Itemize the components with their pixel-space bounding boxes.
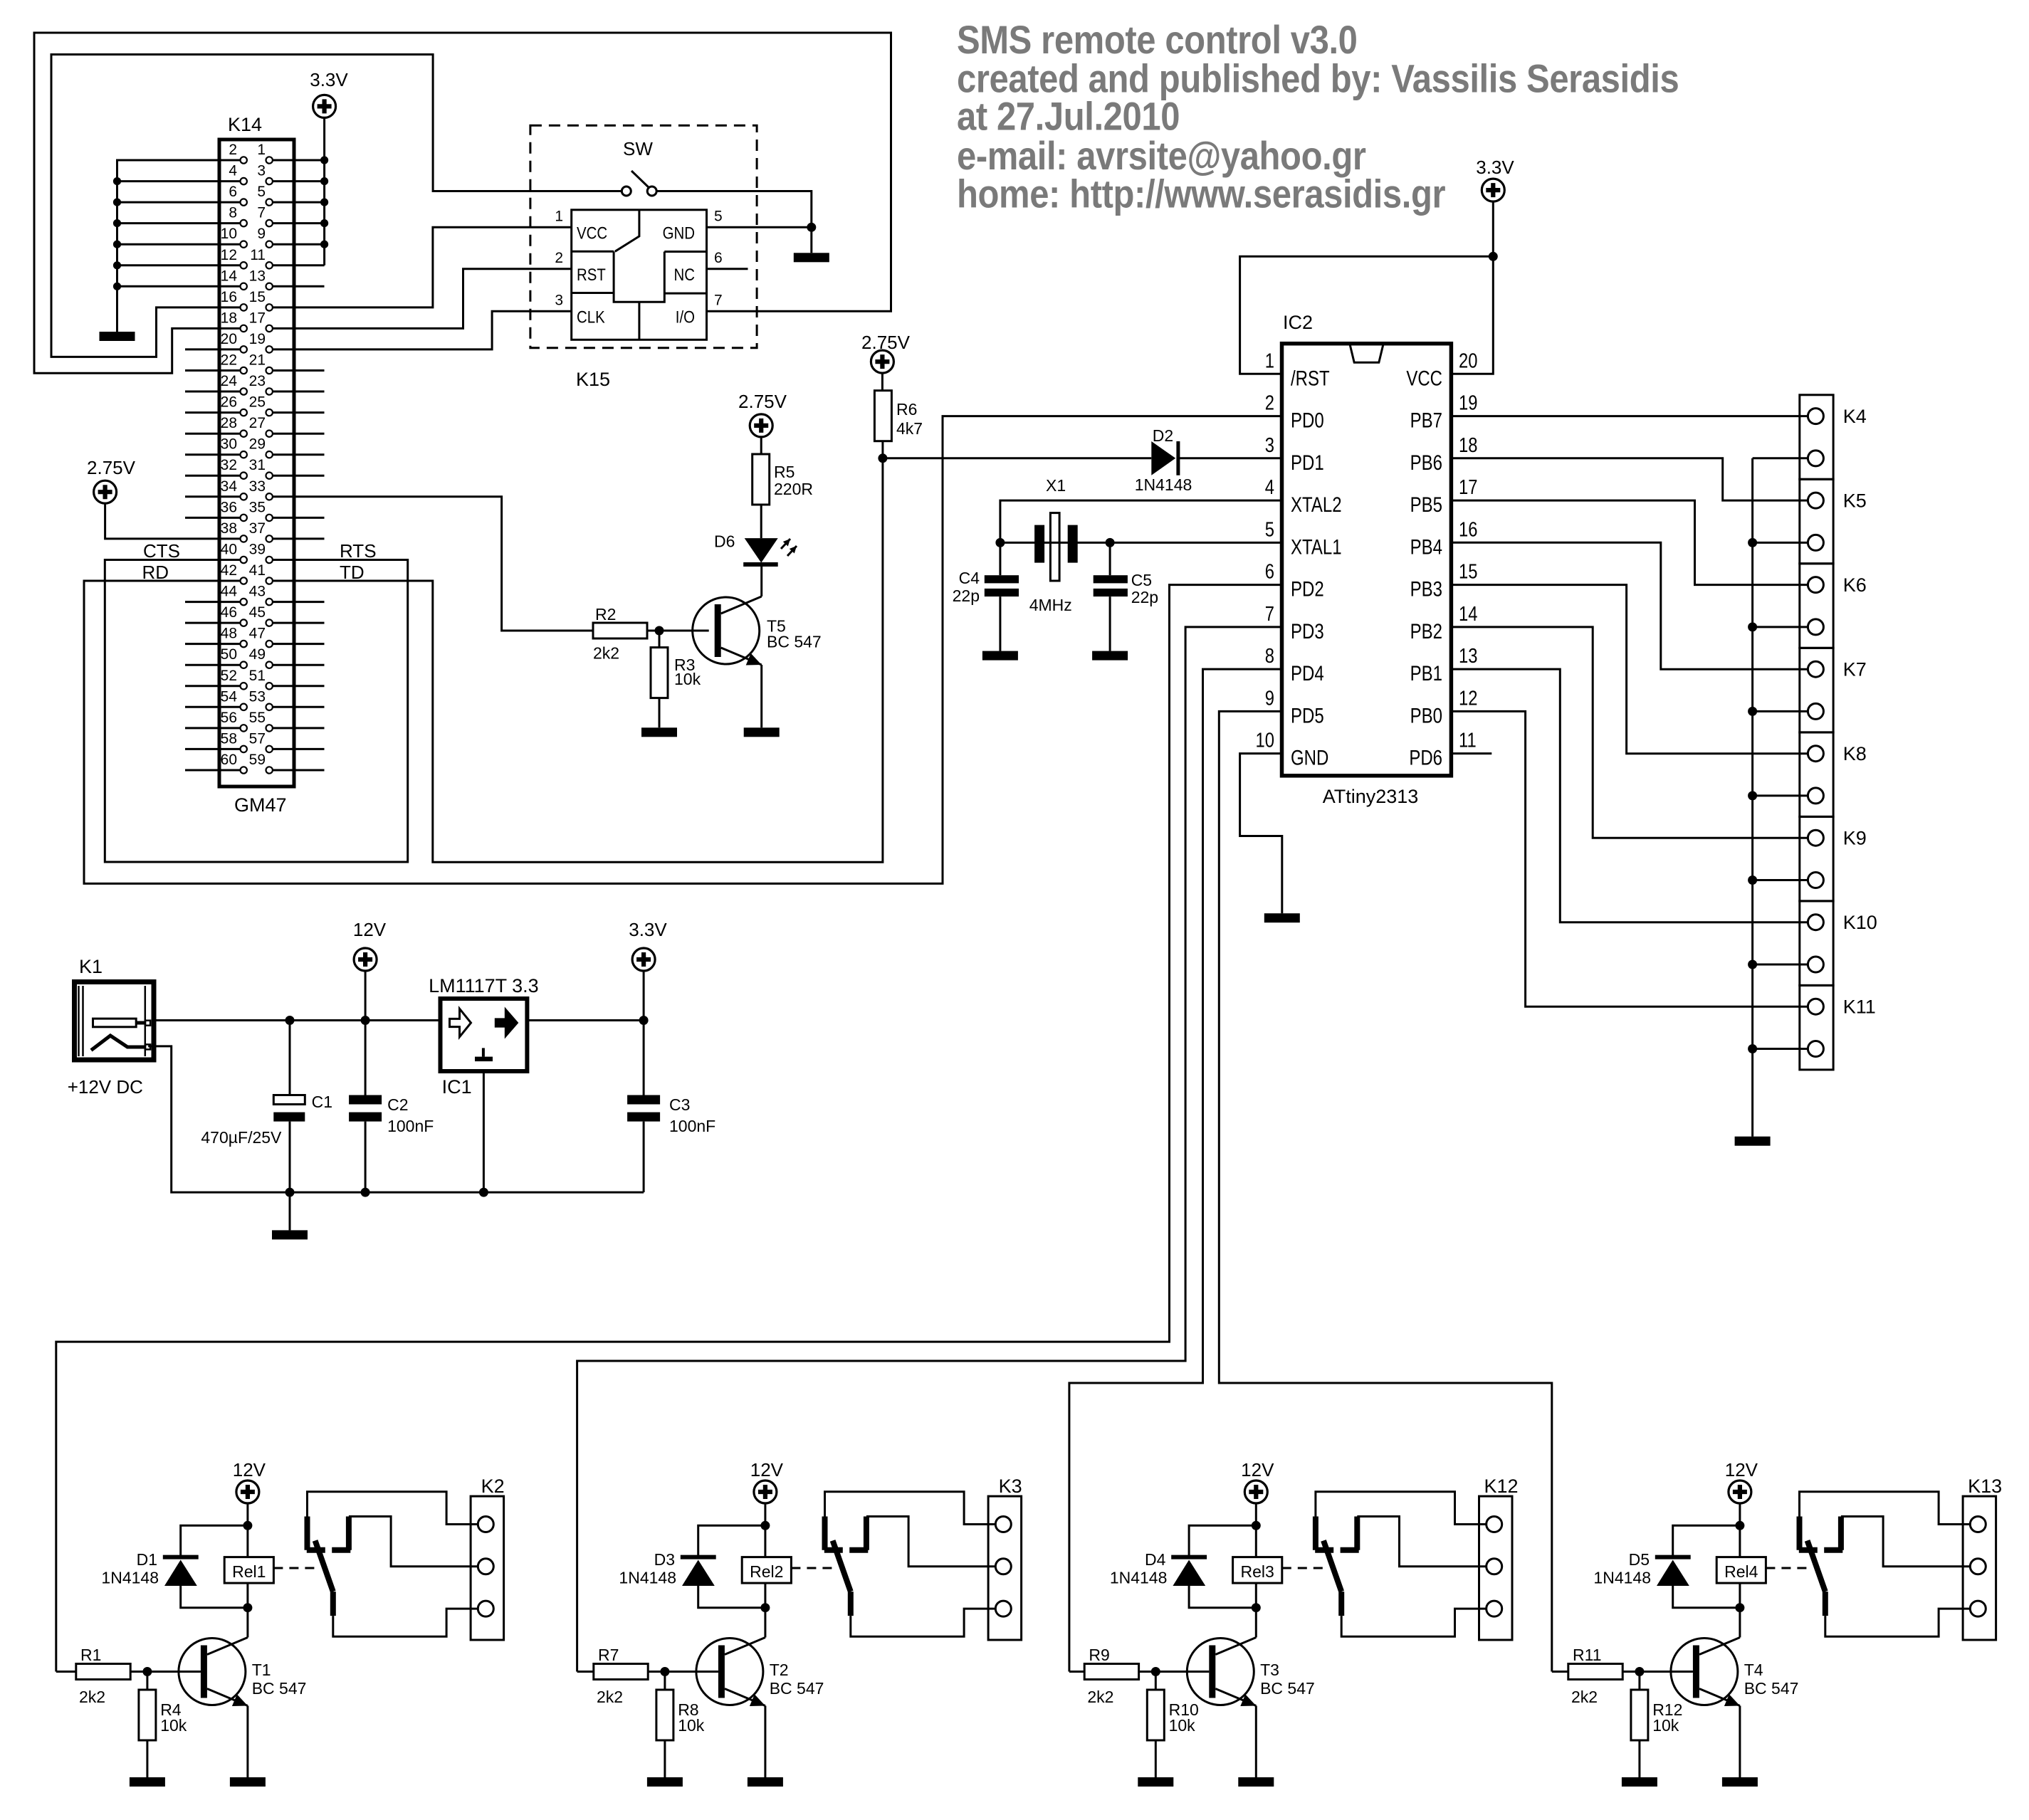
K14 pin 59 (right) <box>266 767 273 773</box>
K14 pin 51 (right) <box>266 683 273 689</box>
junction <box>660 1667 669 1676</box>
wire ground bus of output connectors <box>1753 458 1808 1137</box>
svg-text:X1: X1 <box>1046 476 1066 495</box>
ground (K14 left bus) <box>100 332 135 341</box>
svg-text:12V: 12V <box>233 1459 266 1480</box>
junction <box>639 1016 649 1025</box>
relay contact (SPDT) of Rel3 <box>1315 1517 1333 1550</box>
svg-text:59: 59 <box>249 752 266 768</box>
IC1 output arrow <box>496 1009 518 1037</box>
wire D2 cathode to IC2 PD1 <box>1180 457 1282 459</box>
connector K14 (GM47 module) body <box>219 140 294 787</box>
K13 pin 3 <box>1970 1601 1986 1616</box>
svg-text:19: 19 <box>1459 391 1477 414</box>
K14 pin 56 (left) <box>241 725 247 731</box>
K14 pin 24 (left) <box>241 388 247 394</box>
junction <box>113 283 121 290</box>
ground (T1) <box>230 1777 266 1787</box>
connector K12 body <box>1479 1496 1513 1640</box>
wire base input to R1 <box>56 1671 76 1673</box>
svg-text:53: 53 <box>249 688 266 705</box>
svg-text:K1: K1 <box>79 956 103 977</box>
svg-text:K12: K12 <box>1484 1476 1518 1497</box>
svg-text:R9: R9 <box>1089 1646 1109 1664</box>
junction <box>113 241 121 248</box>
K14 pin 8 (left) <box>241 220 247 226</box>
resistor R6 <box>874 391 891 441</box>
junction <box>113 177 121 185</box>
junction <box>655 626 664 636</box>
wire 12V to coil junction <box>764 1503 766 1557</box>
supply 3.3V (rail) <box>632 948 655 971</box>
svg-text:10k: 10k <box>1169 1716 1196 1735</box>
svg-text:22: 22 <box>221 352 237 369</box>
crystal X1 4MHz <box>1034 525 1044 563</box>
svg-text:GM47: GM47 <box>234 794 287 816</box>
junction <box>995 538 1005 547</box>
svg-text:PB2: PB2 <box>1410 619 1442 643</box>
connector K1 power jack <box>75 982 154 1061</box>
wire contact NC to K2 pin1 <box>308 1492 478 1525</box>
svg-text:220R: 220R <box>774 480 813 498</box>
wire K14 pins 1-11 3.3V bus <box>273 117 325 265</box>
svg-text:40: 40 <box>221 542 237 558</box>
K14 pin 58 (left) <box>241 746 247 752</box>
wire contact common to K2 pin3 <box>333 1609 478 1636</box>
diode D5 1N4148 flyback <box>1673 1525 1740 1607</box>
svg-text:12V: 12V <box>353 919 387 940</box>
resistor R12 10k <box>1638 1672 1640 1778</box>
svg-text:K14: K14 <box>228 114 262 135</box>
K6 pin 1 <box>1808 577 1823 593</box>
svg-text:D1: D1 <box>137 1550 157 1569</box>
svg-text:16: 16 <box>1459 517 1477 541</box>
relay coil Rel4 <box>1716 1557 1766 1584</box>
wire 2.75V to R6 <box>881 373 884 391</box>
wire PB4 to K7 <box>1451 542 1808 669</box>
svg-text:K2: K2 <box>481 1476 505 1497</box>
svg-text:44: 44 <box>221 584 238 600</box>
svg-text:22p: 22p <box>953 586 980 605</box>
svg-text:20: 20 <box>221 331 237 347</box>
supply 12V (Rel1) <box>236 1480 259 1503</box>
svg-text:C5: C5 <box>1131 571 1152 589</box>
junction <box>320 177 328 185</box>
svg-text:33: 33 <box>249 478 266 495</box>
svg-text:5: 5 <box>257 184 266 200</box>
K14 pin 40 (left) <box>241 557 247 563</box>
K14 pin 15 (right) <box>266 304 273 310</box>
svg-text:15: 15 <box>249 289 266 305</box>
svg-text:1: 1 <box>1265 349 1274 372</box>
wire net TD (pin41 to R6/D2 junction, IC2 PD1) <box>273 458 883 863</box>
svg-text:23: 23 <box>249 373 266 389</box>
diode D1 1N4148 flyback <box>181 1525 248 1607</box>
capacitor C3 100nF <box>643 1021 645 1193</box>
svg-text:2k2: 2k2 <box>593 644 619 663</box>
junction <box>878 453 887 463</box>
wire T4 emitter to ground <box>1739 1706 1741 1778</box>
K14 pin 60 (left) <box>241 767 247 773</box>
wire C4 top <box>999 542 1001 575</box>
wire net PD2 (IC2 pin6 to relay 1) <box>56 585 1282 1672</box>
supply 12V (Rel2) <box>754 1480 777 1503</box>
svg-text:10k: 10k <box>160 1716 187 1735</box>
K3 pin 3 <box>995 1601 1011 1616</box>
svg-text:2: 2 <box>229 142 237 158</box>
K12 pin 2 <box>1487 1559 1502 1574</box>
K14 pin 45 (right) <box>266 619 273 626</box>
wire CTS-RTS loop (pin40 to pin39) <box>105 560 407 863</box>
transistor T3 BC 547 <box>1187 1638 1254 1705</box>
svg-text:XTAL2: XTAL2 <box>1291 492 1342 516</box>
svg-text:34: 34 <box>221 478 238 495</box>
K13 pin 2 <box>1970 1559 1986 1574</box>
K14 pin 35 (right) <box>266 515 273 521</box>
wire contact common to K12 pin3 <box>1341 1609 1487 1636</box>
connector K3 body <box>988 1496 1022 1640</box>
IC IC2 ATtiny2313 body <box>1282 344 1452 776</box>
svg-text:Rel2: Rel2 <box>750 1562 783 1581</box>
junction <box>807 223 816 232</box>
connector K7 body <box>1800 648 1833 732</box>
K5 pin 1 <box>1808 493 1823 508</box>
K11 pin 1 <box>1808 999 1823 1014</box>
wire T5 emitter to ground <box>760 665 762 727</box>
junction <box>1735 1521 1744 1530</box>
junction <box>1735 1603 1744 1612</box>
svg-text:VCC: VCC <box>577 223 607 243</box>
wire K14 pin33 to R2 <box>273 497 593 631</box>
wire PB3 to K8 <box>1451 585 1808 754</box>
svg-text:11: 11 <box>250 247 266 263</box>
svg-text:C1: C1 <box>312 1093 332 1111</box>
svg-text:39: 39 <box>249 542 266 558</box>
wire IC2 VCC to 3.3V <box>1451 256 1493 374</box>
resistor R11 2k2 <box>1568 1664 1622 1680</box>
K14 pin 53 (right) <box>266 704 273 710</box>
capacitor C1 470uF/25V <box>289 1021 291 1193</box>
svg-text:1: 1 <box>257 142 266 158</box>
svg-text:2.75V: 2.75V <box>738 391 787 412</box>
junction <box>1151 1667 1160 1676</box>
ground (T5) <box>744 727 780 737</box>
wire ground rail drop <box>289 1192 291 1230</box>
capacitor C4 22p <box>985 575 1019 583</box>
K14 pin 11 (right) <box>266 262 273 268</box>
svg-text:35: 35 <box>249 499 266 515</box>
wire XTAL2 from IC2 to crystal <box>1000 500 1282 542</box>
svg-text:19: 19 <box>249 331 266 347</box>
wire K15 CLK to K14 pin19 <box>273 311 572 349</box>
resistor R8 10k <box>664 1672 666 1778</box>
svg-text:K3: K3 <box>999 1476 1022 1497</box>
svg-text:2k2: 2k2 <box>1087 1688 1113 1706</box>
svg-text:470µF/25V: 470µF/25V <box>201 1128 282 1147</box>
transistor T5 BC547 <box>693 597 760 664</box>
junction <box>1635 1667 1644 1676</box>
connector K2 body <box>471 1496 504 1640</box>
K9 pin 2 <box>1808 873 1823 888</box>
svg-text:PB1: PB1 <box>1410 661 1442 685</box>
wire K14 pins 2-14 ground bus <box>117 160 241 332</box>
K14 pin 23 (right) <box>266 388 273 394</box>
svg-text:51: 51 <box>249 668 266 684</box>
svg-text:NC: NC <box>674 265 695 284</box>
transistor T4 BC 547 <box>1671 1638 1738 1705</box>
K7 pin 2 <box>1808 703 1823 719</box>
wire 12V rail <box>152 1019 644 1021</box>
svg-text:18: 18 <box>221 310 237 326</box>
ground (IC2) <box>1264 913 1300 922</box>
K13 pin 1 <box>1970 1517 1986 1532</box>
K2 pin 2 <box>478 1559 493 1574</box>
ground (T3) <box>1238 1777 1274 1787</box>
svg-text:11: 11 <box>1459 728 1477 752</box>
svg-text:PD2: PD2 <box>1291 577 1324 601</box>
svg-text:I/O: I/O <box>676 307 695 327</box>
K14 pin 5 (right) <box>266 199 273 205</box>
wire K15 NC stub <box>707 268 748 270</box>
svg-text:BC 547: BC 547 <box>1744 1679 1799 1698</box>
svg-text:1N4148: 1N4148 <box>1110 1569 1168 1587</box>
svg-text:D5: D5 <box>1629 1550 1650 1569</box>
K14 pin 32 (left) <box>241 473 247 479</box>
resistor R4 10k <box>146 1672 148 1778</box>
svg-text:C2: C2 <box>387 1095 408 1114</box>
svg-text:3: 3 <box>257 163 266 179</box>
svg-text:14: 14 <box>1459 602 1477 626</box>
svg-text:D3: D3 <box>654 1550 675 1569</box>
K14 pin 6 (left) <box>241 199 247 205</box>
K14 pin 19 (right) <box>266 346 273 352</box>
K14 pin 46 (left) <box>241 619 247 626</box>
svg-text:RTS: RTS <box>340 540 377 562</box>
svg-text:CTS: CTS <box>143 540 180 562</box>
junction <box>113 219 121 227</box>
wire contact NO to K13 pin2 <box>1841 1517 1970 1567</box>
svg-text:/RST: /RST <box>1291 366 1330 390</box>
transistor T1 BC 547 <box>179 1638 246 1705</box>
svg-text:7: 7 <box>714 292 723 308</box>
svg-text:43: 43 <box>249 584 266 600</box>
relay coil Rel3 <box>1233 1557 1282 1584</box>
junction <box>760 1521 770 1530</box>
K14 pin 29 (right) <box>266 451 273 458</box>
wire 12V to coil junction <box>1255 1503 1257 1557</box>
junction <box>285 1016 295 1025</box>
title text block <box>957 18 1679 216</box>
svg-text:3.3V: 3.3V <box>1476 157 1514 178</box>
K14 pin 54 (left) <box>241 704 247 710</box>
svg-text:55: 55 <box>249 710 266 726</box>
svg-text:4: 4 <box>1265 475 1274 499</box>
wire T3 emitter to ground <box>1255 1706 1257 1778</box>
svg-text:58: 58 <box>221 730 237 747</box>
wire PD1 junction to D2 anode <box>883 457 1151 459</box>
K14 pin 50 (left) <box>241 662 247 668</box>
svg-text:C4: C4 <box>959 569 980 587</box>
svg-text:6: 6 <box>229 184 237 200</box>
svg-text:2.75V: 2.75V <box>861 332 911 353</box>
svg-text:XTAL1: XTAL1 <box>1291 535 1342 559</box>
K5 pin 2 <box>1808 535 1823 550</box>
junction <box>361 1016 370 1025</box>
resistor R10 10k <box>1155 1672 1157 1778</box>
K14 pin 52 (left) <box>241 683 247 689</box>
svg-text:BC 547: BC 547 <box>767 633 822 651</box>
supply 2.75V (R5) <box>750 414 772 437</box>
connector K11 body <box>1800 985 1833 1070</box>
wire SW to K15 GND junction and ground <box>656 191 812 253</box>
K11 pin 2 <box>1808 1041 1823 1057</box>
K2 pin 1 <box>478 1517 493 1532</box>
svg-text:49: 49 <box>249 646 266 663</box>
wire R5 to 2.75V <box>760 437 762 454</box>
ground (R10) <box>1138 1777 1173 1787</box>
wire IC2 PD6 stub <box>1451 752 1491 754</box>
ground (R4) <box>130 1777 165 1787</box>
svg-text:52: 52 <box>221 668 237 684</box>
K14 pin 36 (left) <box>241 515 247 521</box>
svg-text:6: 6 <box>714 250 723 266</box>
connector K8 body <box>1800 732 1833 817</box>
svg-text:46: 46 <box>221 604 237 621</box>
svg-text:7: 7 <box>1265 602 1274 626</box>
wire 2.75V to pin 38 <box>105 503 241 539</box>
junction <box>320 156 328 164</box>
svg-text:2k2: 2k2 <box>79 1688 105 1706</box>
wire contact NO to K12 pin2 <box>1357 1517 1486 1567</box>
svg-text:LM1117T 3.3: LM1117T 3.3 <box>429 975 539 996</box>
svg-text:6: 6 <box>1265 559 1274 583</box>
svg-text:100nF: 100nF <box>387 1117 434 1135</box>
svg-text:15: 15 <box>1459 559 1477 583</box>
K14 pin 14 (left) <box>241 283 247 290</box>
svg-text:12V: 12V <box>750 1459 784 1480</box>
svg-text:60: 60 <box>221 752 237 768</box>
K12 pin 3 <box>1487 1601 1502 1616</box>
K14 pin 44 (left) <box>241 599 247 605</box>
wire net SIM I/O (K14 pin18 outer loop to K15 pin7) <box>34 33 891 373</box>
svg-text:56: 56 <box>221 710 237 726</box>
svg-text:IC1: IC1 <box>442 1076 472 1098</box>
junction <box>142 1667 152 1676</box>
K14 pin 42 (left) <box>241 577 247 584</box>
K14 pin 55 (right) <box>266 725 273 731</box>
svg-text:14: 14 <box>221 268 238 284</box>
svg-text:PD4: PD4 <box>1291 661 1324 685</box>
svg-text:26: 26 <box>221 394 237 411</box>
junction <box>113 199 121 206</box>
svg-text:12V: 12V <box>1725 1459 1758 1480</box>
svg-text:PB6: PB6 <box>1410 450 1442 474</box>
svg-text:17: 17 <box>1459 475 1477 499</box>
K14 pin 31 (right) <box>266 473 273 479</box>
svg-text:R5: R5 <box>774 463 795 481</box>
svg-text:17: 17 <box>249 310 266 326</box>
wire 12V to coil junction <box>246 1503 248 1557</box>
svg-text:K6: K6 <box>1843 574 1867 596</box>
ground (R12) <box>1622 1777 1657 1787</box>
diode D3 1N4148 flyback <box>698 1525 765 1607</box>
K15 internal cell lines <box>572 210 707 340</box>
K14 pin 7 (right) <box>266 220 273 226</box>
svg-text:Rel1: Rel1 <box>232 1562 266 1581</box>
resistor R3 <box>659 631 661 727</box>
K14 pin 30 (left) <box>241 451 247 458</box>
K14 pin 25 (right) <box>266 409 273 416</box>
K9 pin 1 <box>1808 830 1823 846</box>
svg-text:9: 9 <box>1265 686 1274 710</box>
svg-text:8: 8 <box>1265 644 1274 668</box>
connector K4 body <box>1800 395 1833 480</box>
svg-text:1: 1 <box>555 208 563 224</box>
svg-text:22p: 22p <box>1131 588 1158 606</box>
svg-text:57: 57 <box>249 730 266 747</box>
resistor R1 2k2 <box>76 1664 130 1680</box>
svg-text:12: 12 <box>221 247 237 263</box>
wire PB1 to K10 <box>1451 669 1808 922</box>
K14 pin 12 (left) <box>241 262 247 268</box>
svg-text:BC 547: BC 547 <box>252 1679 307 1698</box>
svg-text:16: 16 <box>221 289 237 305</box>
resistor R2 <box>593 623 647 638</box>
svg-text:9: 9 <box>257 226 266 242</box>
wire C5 to ground <box>1109 596 1111 651</box>
wire base input to R11 <box>1552 1671 1568 1673</box>
svg-text:5: 5 <box>714 208 723 224</box>
svg-text:C3: C3 <box>669 1095 690 1114</box>
svg-text:RST: RST <box>577 265 606 284</box>
svg-text:2: 2 <box>555 250 563 266</box>
junction <box>285 1188 295 1197</box>
svg-text:T4: T4 <box>1744 1661 1763 1679</box>
svg-text:at 27.Jul.2010: at 27.Jul.2010 <box>957 95 1180 140</box>
svg-text:GND: GND <box>663 223 695 243</box>
K10 pin 1 <box>1808 915 1823 930</box>
K14 pin 21 (right) <box>266 367 273 374</box>
K14 pin 20 (left) <box>241 346 247 352</box>
svg-text:4: 4 <box>229 163 237 179</box>
connector K15 SIM holder dashed outline <box>530 125 757 348</box>
K14 pin 3 (right) <box>266 178 273 184</box>
wire R2 to T5 base <box>647 630 709 632</box>
wire PB5 to K6 <box>1451 500 1808 585</box>
svg-text:24: 24 <box>221 373 238 389</box>
svg-text:7: 7 <box>257 205 266 221</box>
svg-text:VCC: VCC <box>1406 366 1442 390</box>
svg-text:1N4148: 1N4148 <box>619 1569 676 1587</box>
svg-text:GND: GND <box>1291 745 1328 769</box>
wire PB6 to K5 <box>1451 458 1808 500</box>
svg-text:1N4148: 1N4148 <box>101 1569 159 1587</box>
wire PB7 to K4 <box>1451 415 1808 417</box>
relay contact (SPDT) of Rel2 <box>824 1517 843 1550</box>
svg-text:18: 18 <box>1459 433 1477 457</box>
svg-text:48: 48 <box>221 626 237 642</box>
dashed link Rel4 to contact <box>1766 1567 1812 1569</box>
svg-text:4k7: 4k7 <box>896 419 923 438</box>
K3 pin 2 <box>995 1559 1011 1574</box>
wire T2 emitter to ground <box>764 1706 766 1778</box>
svg-text:IC2: IC2 <box>1283 312 1313 333</box>
wire coil bottom <box>246 1583 248 1608</box>
wire T3 collector to relay coil <box>1255 1608 1257 1638</box>
wire XTAL1 line through crystal <box>1000 542 1282 544</box>
svg-text:D6: D6 <box>714 532 735 551</box>
wire T1 collector to relay coil <box>246 1608 248 1638</box>
